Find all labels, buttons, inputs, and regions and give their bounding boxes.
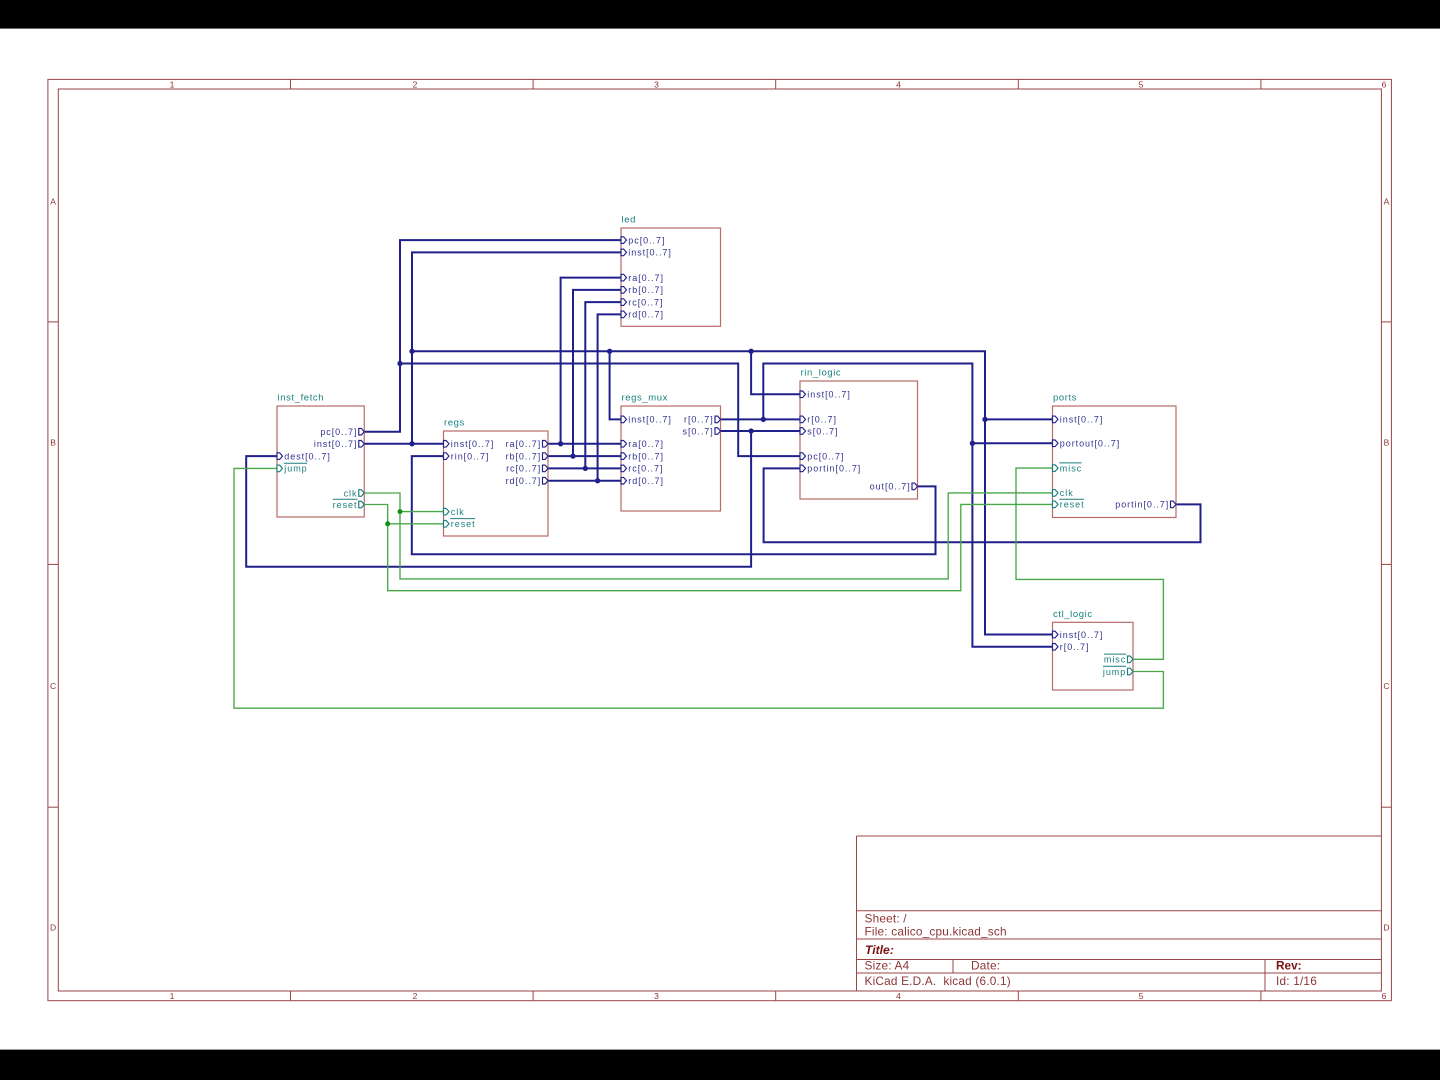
svg-text:D: D <box>1383 923 1389 933</box>
svg-text:C: C <box>50 681 56 691</box>
svg-text:4: 4 <box>896 79 901 89</box>
svg-text:4: 4 <box>896 991 901 1001</box>
svg-text:rc[0..7]: rc[0..7] <box>628 297 663 307</box>
svg-text:r[0..7]: r[0..7] <box>807 415 837 425</box>
svg-text:Id: 1/16: Id: 1/16 <box>1276 974 1317 988</box>
svg-text:led: led <box>622 215 636 226</box>
svg-text:rb[0..7]: rb[0..7] <box>506 451 542 461</box>
svg-text:r[0..7]: r[0..7] <box>1060 642 1090 652</box>
svg-text:ra[0..7]: ra[0..7] <box>506 439 542 449</box>
svg-text:2: 2 <box>413 79 418 89</box>
svg-text:out[0..7]: out[0..7] <box>870 482 911 492</box>
svg-text:A: A <box>1384 197 1390 207</box>
svg-text:ctl_logic: ctl_logic <box>1053 609 1093 620</box>
svg-text:2: 2 <box>413 991 418 1001</box>
svg-text:6: 6 <box>1382 991 1387 1001</box>
svg-text:File: calico_cpu.kicad_sch: File: calico_cpu.kicad_sch <box>865 925 1007 939</box>
svg-text:ports: ports <box>1053 393 1077 404</box>
svg-text:misc: misc <box>1104 655 1126 665</box>
svg-text:pc[0..7]: pc[0..7] <box>807 451 844 461</box>
svg-text:Sheet: /: Sheet: / <box>865 912 908 926</box>
svg-text:Rev:: Rev: <box>1276 959 1302 973</box>
svg-text:r[0..7]: r[0..7] <box>684 415 714 425</box>
svg-text:5: 5 <box>1139 79 1144 89</box>
svg-text:s[0..7]: s[0..7] <box>807 426 838 436</box>
svg-text:rd[0..7]: rd[0..7] <box>628 476 664 486</box>
svg-text:3: 3 <box>654 991 659 1001</box>
svg-text:regs_mux: regs_mux <box>622 393 669 404</box>
svg-text:rb[0..7]: rb[0..7] <box>628 285 664 295</box>
svg-text:Title:: Title: <box>865 943 894 957</box>
svg-text:6: 6 <box>1382 79 1387 89</box>
svg-text:pc[0..7]: pc[0..7] <box>628 235 665 245</box>
svg-text:s[0..7]: s[0..7] <box>683 426 714 436</box>
svg-text:Date:: Date: <box>971 959 1000 973</box>
svg-text:D: D <box>50 923 56 933</box>
svg-text:inst[0..7]: inst[0..7] <box>1060 630 1104 640</box>
svg-text:C: C <box>1383 681 1389 691</box>
svg-text:reset: reset <box>333 500 358 510</box>
svg-text:portin[0..7]: portin[0..7] <box>1115 500 1169 510</box>
svg-text:regs: regs <box>444 418 465 429</box>
svg-text:jump: jump <box>1102 667 1126 677</box>
svg-text:ra[0..7]: ra[0..7] <box>628 439 664 449</box>
svg-text:misc: misc <box>1060 463 1082 473</box>
svg-text:clk: clk <box>344 488 358 498</box>
svg-text:3: 3 <box>654 79 659 89</box>
svg-text:rin_logic: rin_logic <box>801 368 842 379</box>
svg-text:rd[0..7]: rd[0..7] <box>506 476 542 486</box>
svg-text:rc[0..7]: rc[0..7] <box>628 464 663 474</box>
svg-text:5: 5 <box>1139 991 1144 1001</box>
svg-text:inst[0..7]: inst[0..7] <box>807 390 851 400</box>
svg-text:clk: clk <box>451 507 465 517</box>
svg-text:reset: reset <box>1060 500 1085 510</box>
svg-text:inst[0..7]: inst[0..7] <box>314 439 358 449</box>
svg-text:1: 1 <box>170 991 175 1001</box>
svg-text:rb[0..7]: rb[0..7] <box>628 451 664 461</box>
svg-text:clk: clk <box>1060 488 1074 498</box>
svg-text:portout[0..7]: portout[0..7] <box>1060 439 1120 449</box>
svg-text:rc[0..7]: rc[0..7] <box>506 464 541 474</box>
svg-text:B: B <box>50 437 56 447</box>
svg-text:ra[0..7]: ra[0..7] <box>628 273 664 283</box>
svg-text:KiCad E.D.A. kicad (6.0.1): KiCad E.D.A. kicad (6.0.1) <box>865 974 1011 988</box>
svg-text:inst[0..7]: inst[0..7] <box>451 439 495 449</box>
svg-text:1: 1 <box>170 79 175 89</box>
svg-text:inst[0..7]: inst[0..7] <box>1060 415 1104 425</box>
svg-text:rin[0..7]: rin[0..7] <box>451 451 490 461</box>
svg-text:rd[0..7]: rd[0..7] <box>628 310 664 320</box>
svg-text:B: B <box>1384 437 1390 447</box>
svg-text:Size: A4: Size: A4 <box>865 959 910 973</box>
svg-text:inst_fetch: inst_fetch <box>278 393 325 404</box>
svg-text:A: A <box>50 197 56 207</box>
svg-text:inst[0..7]: inst[0..7] <box>628 248 672 258</box>
svg-text:reset: reset <box>451 519 476 529</box>
svg-text:portin[0..7]: portin[0..7] <box>807 464 861 474</box>
svg-text:pc[0..7]: pc[0..7] <box>320 427 357 437</box>
svg-text:inst[0..7]: inst[0..7] <box>628 415 672 425</box>
svg-text:dest[0..7]: dest[0..7] <box>284 451 331 461</box>
svg-text:jump: jump <box>283 464 307 474</box>
